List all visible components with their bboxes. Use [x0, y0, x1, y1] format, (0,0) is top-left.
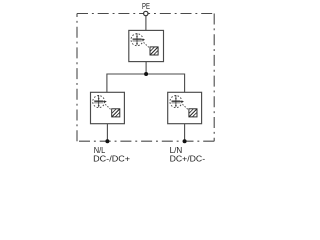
arrester top symbol — [131, 33, 158, 55]
terminal dot L/N — [183, 139, 187, 143]
junction dot on bus — [144, 72, 148, 76]
terminal PE (open circle) — [144, 11, 148, 15]
wire bus horizontal — [107, 73, 185, 75]
wire right arrester to L/N terminal — [184, 124, 186, 142]
arrester left (N/L path) box — [91, 92, 125, 123]
wire left arrester to N/L terminal — [106, 124, 108, 142]
wire top arrester to bus junction — [145, 62, 147, 74]
wire bus to right arrester — [184, 74, 186, 93]
device outline (dash-dot enclosure) right edge — [213, 14, 215, 142]
wire bus to left arrester — [106, 74, 108, 93]
arrester right (L/N path) box — [168, 92, 202, 123]
device outline (dash-dot enclosure) bottom edge — [77, 140, 214, 142]
svg-text:DC+/DC-: DC+/DC- — [170, 153, 206, 163]
arrester top (N/PE spark gap) box — [129, 30, 164, 61]
arrester right symbol — [170, 95, 197, 117]
svg-text:DC-/DC+: DC-/DC+ — [93, 153, 130, 163]
device outline (dash-dot enclosure) left edge — [76, 14, 78, 142]
arrester left symbol — [93, 95, 120, 117]
wire PE terminal to top arrester — [145, 16, 147, 31]
device outline (dash-dot enclosure) top edge — [77, 13, 214, 15]
svg-text:PE: PE — [142, 1, 150, 11]
terminal dot N/L — [105, 139, 109, 143]
